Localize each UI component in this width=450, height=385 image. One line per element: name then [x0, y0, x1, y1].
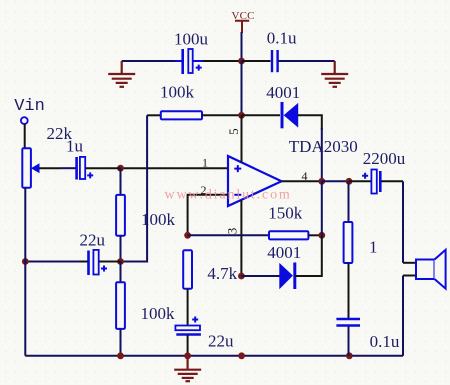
diode D1 4001 (pointing left) [282, 102, 298, 128]
svg-text:0.1u: 0.1u [370, 332, 400, 351]
junction rail at 22u [184, 352, 191, 359]
junction output node 2 [346, 178, 353, 185]
resistor 1 ohm (vertical) [344, 222, 353, 263]
wire 100k to node row2 [202, 114, 242, 116]
junction 150k right node [318, 232, 325, 239]
svg-text:4.7k: 4.7k [207, 264, 237, 283]
wire output node2 down to 1 ohm [348, 181, 350, 222]
svg-text:3: 3 [225, 228, 240, 235]
svg-text:0.1u: 0.1u [267, 29, 297, 48]
svg-text:2200u: 2200u [363, 149, 406, 168]
svg-text:100k: 100k [141, 304, 176, 323]
svg-text:150k: 150k [268, 204, 303, 223]
potentiometer 22k [22, 148, 60, 188]
resistor 100k top (horizontal) [161, 111, 202, 119]
wire 4.7k to 22u bottom [187, 289, 189, 325]
port Vin circle [21, 117, 28, 124]
svg-text:TDA2030: TDA2030 [289, 137, 358, 156]
wire 0.1u to ground [279, 60, 335, 62]
wire speaker top terminal [403, 262, 416, 264]
capacitor 1u (polarized) [60, 157, 121, 180]
wire VCC node down to row2 node [241, 61, 243, 115]
svg-text:1: 1 [202, 156, 208, 170]
wire 100u to VCC node [203, 60, 242, 62]
capacitor 22u left (polarized) [80, 250, 121, 275]
svg-text:5: 5 [226, 128, 241, 135]
wire bottom rail [25, 355, 403, 357]
wire Vin to pot [24, 124, 26, 148]
wire 150k to output column [308, 234, 321, 236]
svg-text:4001: 4001 [267, 243, 301, 262]
svg-text:www.dianlut.com: www.dianlut.com [165, 188, 292, 203]
speaker LS1 [416, 250, 446, 289]
svg-text:Vin: Vin [14, 97, 45, 116]
capacitor 100u (polarized) [175, 49, 203, 74]
wire output column upper segment [321, 128, 323, 181]
junction pot column node [22, 258, 29, 265]
resistor 4.7k (vertical) [183, 250, 192, 288]
pin 1 wire [121, 167, 229, 169]
capacitor 0.1u bottom [336, 319, 360, 326]
junction output node 1 [318, 178, 325, 185]
junction node row2 [238, 112, 245, 119]
wire node to 0.1u [242, 60, 271, 62]
wire speaker bottom terminal [403, 275, 416, 277]
ground top-right [321, 61, 348, 87]
capacitor 22u bottom (polarized) [175, 317, 201, 335]
wire diode D1 to output column [298, 115, 322, 130]
pin 4 wire (output) [282, 180, 323, 182]
svg-text:100k: 100k [160, 82, 195, 101]
wire row2 left bend down (link column top) [147, 114, 161, 116]
diode D2 4001 (pointing right) [280, 263, 295, 290]
capacitor 0.1u top [272, 50, 278, 72]
wire node to diode D1 [242, 114, 281, 116]
junction feedback node [184, 232, 191, 239]
svg-text:100u: 100u [174, 30, 209, 49]
svg-text:1: 1 [369, 238, 378, 257]
wire 2200u down to speaker top [402, 181, 404, 262]
op-amp plus sign [234, 165, 241, 172]
ground bottom [174, 356, 201, 381]
power symbol VCC [232, 10, 255, 33]
capacitor 2200u (polarized) [349, 170, 403, 194]
wire diode D2 up to 150k node [295, 235, 322, 276]
junction node B (bias) [117, 258, 124, 265]
svg-text:4001: 4001 [266, 83, 300, 102]
wire 1 ohm to 0.1u [348, 263, 350, 318]
pin 5 wire [241, 115, 243, 162]
wire feedback node to 150k [188, 234, 269, 236]
op-amp minus sign [234, 194, 241, 196]
wire 0.1u to rail [348, 327, 350, 356]
wire speaker bottom column [402, 276, 404, 356]
junction pin3/diode node [238, 273, 245, 280]
junction rail at 100k [117, 352, 124, 359]
svg-text:1u: 1u [66, 137, 84, 156]
resistor 150k (horizontal) [269, 231, 308, 239]
wire 22u bottom to rail [187, 335, 189, 356]
pin 3 wire [240, 200, 242, 276]
svg-text:4: 4 [302, 169, 308, 183]
junction rail at 0.1u [346, 352, 353, 359]
svg-text:22u: 22u [208, 332, 234, 351]
svg-text:22u: 22u [80, 231, 106, 250]
junction node VCC top rail [238, 58, 245, 65]
junction rail at pin3 [238, 352, 245, 359]
pin 2 wire [188, 195, 228, 236]
op-amp U1 TDA2030 triangle [228, 156, 282, 206]
ground top-left [108, 61, 135, 87]
wire output column mid segment [321, 181, 323, 235]
wire pot column to 22u left [25, 261, 80, 263]
wire VCC stub down to node [241, 32, 243, 61]
wire pot bottom down to rail [24, 188, 26, 356]
resistor 100k bottom-left (vertical) [116, 262, 125, 356]
resistor 100k mid-left (vertical) [116, 168, 125, 262]
wire node to diode D2 [241, 275, 280, 277]
junction node A (input) [117, 165, 124, 172]
wire output node to cap branch node [322, 180, 349, 182]
wire link column (top 100k left end down to bias node) [121, 115, 148, 261]
wire top rail left (gnd to 100u) [122, 60, 181, 62]
